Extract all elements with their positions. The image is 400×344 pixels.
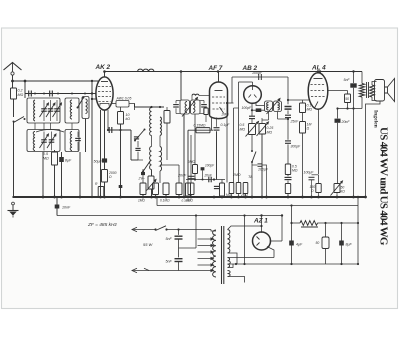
svg-text:2MΩ: 2MΩ — [221, 113, 230, 117]
svg-text:MΩ: MΩ — [292, 169, 298, 173]
resistor R4 — [98, 187, 104, 197]
terminal mains L — [132, 227, 137, 231]
wire AZ1 cathode out — [270, 240, 282, 242]
wire C12 down — [216, 131, 218, 179]
capacitor C6 50uF — [102, 158, 107, 162]
transformer T2 core — [221, 226, 223, 284]
svg-text:AW1 0.05: AW1 0.05 — [116, 97, 132, 101]
wire tuner top — [25, 93, 92, 95]
svg-text:10nF: 10nF — [62, 206, 71, 210]
potentiometer P1 — [151, 170, 153, 177]
transformer T1 secondary — [370, 85, 375, 97]
capacitor C13 100pF — [258, 74, 260, 80]
resistor R17 1M — [285, 184, 290, 194]
resistor R5 10k — [120, 107, 122, 112]
coil L3 — [33, 132, 35, 151]
node bus junctions — [42, 196, 45, 199]
resistor R12 0.15M — [188, 129, 213, 131]
resistor R9 — [176, 183, 182, 195]
wire screen feed — [328, 90, 348, 92]
svg-text:Ω: Ω — [311, 189, 314, 193]
resistor R6 — [140, 183, 146, 195]
wire AF7 right leg — [222, 117, 224, 122]
potentiometer P2 0.5M — [249, 124, 256, 135]
svg-text:Ω: Ω — [307, 127, 310, 131]
resistor R16 0.5M — [285, 164, 290, 175]
wire 100pF link — [232, 76, 288, 78]
capacitor C21 5nF — [350, 83, 356, 87]
wire HT top lead — [228, 226, 262, 230]
potentiometer P4 — [334, 184, 340, 193]
capacitor C17 25nF — [285, 114, 291, 116]
resistor R22 field coil — [292, 222, 301, 224]
variable arrow IF1 — [182, 98, 198, 117]
capacitor C5 10nF — [56, 197, 58, 216]
wire mains bottom — [132, 270, 211, 272]
svg-text:MΩ: MΩ — [267, 131, 273, 135]
wire IF2 right bottom — [277, 112, 279, 120]
wire R3 to bus — [104, 182, 106, 197]
wire antenna to AK2 grid — [13, 80, 99, 82]
transformer T2 taps — [198, 238, 212, 240]
svg-text:0.1MΩ: 0.1MΩ — [160, 198, 170, 202]
wire IF2 left bottom — [268, 112, 270, 121]
transformer T2 heater — [228, 258, 231, 268]
coil L2b — [86, 99, 88, 114]
capacitor C18 300pF — [285, 140, 291, 142]
wire diode loads — [226, 103, 228, 183]
potentiometer P3 0.25M — [261, 118, 263, 124]
svg-text:20nF: 20nF — [204, 174, 213, 178]
switch S5 TA — [251, 135, 253, 152]
wire below R1 — [13, 99, 15, 117]
wire tuner to AK2 g3 — [92, 93, 97, 95]
svg-text:300pF: 300pF — [291, 145, 302, 149]
wire antenna lead — [12, 75, 14, 88]
resistor R15 — [243, 183, 248, 194]
IF1 box left — [180, 100, 190, 114]
capacitor C12c series — [208, 177, 210, 183]
svg-text:MΩ: MΩ — [18, 93, 24, 97]
svg-text:8μF: 8μF — [65, 159, 72, 163]
variable capacitor CV2b — [56, 100, 58, 121]
choke L5 — [138, 69, 155, 71]
svg-text:5nF: 5nF — [166, 260, 173, 264]
svg-text:50μF: 50μF — [94, 160, 103, 164]
bus heater return — [228, 263, 359, 265]
coil L7 lower — [160, 147, 162, 172]
coil L6 lower — [150, 147, 152, 170]
transformer T2 primary — [213, 230, 216, 277]
coil L8 — [185, 102, 187, 113]
switch S3 — [135, 130, 145, 141]
svg-text:20nF: 20nF — [177, 174, 187, 178]
transformer T1 core — [366, 82, 368, 98]
node antenna junction — [11, 80, 14, 83]
capacitor C11 — [203, 101, 205, 104]
capacitor C16b coupling — [285, 106, 292, 108]
coil box A2 — [65, 98, 79, 123]
svg-text:5nF: 5nF — [166, 237, 173, 241]
tap arrow mains bottom — [211, 269, 215, 272]
coil L2 — [70, 100, 72, 119]
capacitor C8c — [134, 136, 139, 138]
svg-text:0.3MΩ: 0.3MΩ — [182, 199, 192, 203]
wire AK2 cathode down — [100, 110, 102, 197]
resistor R14 — [236, 183, 241, 194]
svg-text:100pF: 100pF — [205, 164, 215, 168]
capacitor C4 8uF — [61, 152, 63, 197]
wire column b — [79, 152, 81, 197]
svg-text:Ω: Ω — [109, 175, 112, 179]
capacitor C24 5nF — [178, 248, 180, 257]
coil L11 — [278, 103, 280, 111]
svg-text:100pF: 100pF — [258, 168, 269, 172]
switch S2 band — [78, 98, 84, 108]
coil L10 — [267, 103, 269, 111]
wire cathode row — [186, 179, 225, 181]
transformer T2 aux winding — [228, 271, 231, 277]
svg-text:8μF: 8μF — [346, 243, 353, 247]
svg-text:2MΩ: 2MΩ — [232, 173, 241, 177]
svg-text:ZF = 485 kHz: ZF = 485 kHz — [87, 222, 117, 228]
wire AF7 cathode — [211, 118, 213, 131]
resistor R osc — [166, 107, 168, 111]
coil box A1 — [27, 98, 60, 123]
variable capacitor CV3 — [43, 132, 45, 151]
node tuner top junctions — [34, 93, 36, 95]
wire osc bottom — [152, 169, 161, 171]
wire A3 down — [85, 119, 87, 153]
electrolytic can — [325, 223, 327, 237]
wire curved link — [36, 130, 64, 133]
wire AF7 grid top — [218, 72, 220, 83]
wire tuner left — [24, 81, 26, 98]
antenna — [4, 63, 22, 71]
svg-text:0.5: 0.5 — [43, 152, 48, 156]
wire heater drop — [244, 216, 246, 265]
capacitor C23 5nF — [178, 230, 180, 235]
wire OT gnd drop — [353, 109, 355, 198]
svg-text:0.1μF: 0.1μF — [221, 123, 231, 127]
svg-text:kΩ: kΩ — [126, 117, 131, 121]
svg-text:kΩ: kΩ — [341, 190, 346, 194]
resistor R1 0.2M — [11, 88, 17, 99]
wire rail drop IF1 — [180, 72, 182, 101]
resistor R11 2M — [194, 114, 196, 165]
switch S1 — [14, 117, 25, 123]
variable arrow IF2 — [267, 99, 281, 115]
wire AL4 plate top — [317, 72, 319, 74]
wire P1 to bus — [151, 189, 153, 197]
wire line2 — [156, 197, 158, 206]
wire column osc2 — [159, 171, 161, 183]
wire coil links — [151, 136, 153, 147]
wire R5 to bus — [120, 124, 122, 197]
capacitor C16 100pF — [252, 164, 258, 166]
svg-text:MΩ: MΩ — [43, 157, 49, 161]
resistor R21 50 — [347, 91, 349, 95]
capacitor C14b — [249, 115, 255, 117]
wire line3 — [57, 215, 282, 217]
coil L1 — [34, 100, 35, 121]
wire column a — [42, 152, 44, 197]
capacitor C14 100pF — [252, 109, 265, 111]
wire R1 to ground bus — [13, 121, 15, 197]
wire filter col right — [357, 206, 359, 265]
svg-text:20nF: 20nF — [341, 120, 351, 124]
wire primary top lead — [211, 230, 216, 232]
coil L9 — [193, 102, 195, 113]
wire mains top — [132, 229, 155, 231]
transformer T1 primary — [359, 84, 364, 98]
wire column c — [91, 81, 93, 197]
ground — [12, 202, 15, 205]
wire links rows — [34, 123, 36, 130]
coil L9b grid — [192, 94, 199, 95]
resistor R18 0.1M — [300, 103, 306, 113]
capacitor C1 — [28, 91, 30, 97]
svg-text:4μF: 4μF — [296, 243, 303, 247]
svg-text:AL 4: AL 4 — [311, 65, 326, 72]
wire speaker return — [366, 101, 381, 197]
svg-text:AF 7: AF 7 — [208, 65, 223, 72]
wire bus to line2 link — [357, 197, 359, 206]
resistor R3 — [102, 170, 108, 183]
capacitor C12 — [216, 118, 218, 127]
resistor R2 0.5M — [54, 150, 56, 152]
coil box B1 — [27, 130, 60, 152]
rail B+ top — [105, 71, 363, 73]
svg-text:25nF: 25nF — [290, 120, 300, 124]
ground bus — [13, 196, 366, 198]
switch S4 — [143, 161, 151, 172]
svg-text:US 404 WV und US 404 WG: US 404 WV und US 404 WG — [378, 127, 390, 246]
wire R2 to bus — [54, 165, 56, 197]
capacitor C19 5nF — [285, 176, 292, 178]
variable capacitor CV2 — [50, 100, 52, 121]
wire AB2 diode left — [251, 103, 253, 116]
svg-text:2V~: 2V~ — [138, 177, 146, 181]
wire left of R12 — [187, 130, 189, 179]
svg-text:0.25: 0.25 — [267, 126, 274, 130]
wire row links — [131, 159, 143, 161]
svg-text:100pF: 100pF — [242, 106, 253, 110]
switch S6 — [156, 226, 167, 231]
wire AZ1 anode drop — [261, 216, 263, 233]
wire HT bottom tap — [228, 253, 238, 264]
capacitor C8b 1nF — [141, 172, 145, 175]
resistor R20 150 — [318, 175, 320, 184]
node rail junctions — [180, 70, 183, 73]
svg-text:AB 2: AB 2 — [242, 65, 258, 72]
wire RC ladder top — [288, 99, 310, 101]
wire aux lead — [228, 277, 245, 283]
wire filter col1 — [291, 206, 293, 265]
IF1 box right — [191, 100, 201, 114]
wire OT top drop — [353, 72, 355, 84]
coil L4 — [70, 132, 72, 151]
wire heater top lead — [228, 257, 275, 259]
svg-text:MΩ: MΩ — [240, 128, 246, 132]
capacitor C20 100uF — [312, 174, 319, 176]
wire heater bottom lead — [228, 264, 234, 268]
resistor R11 stopper — [204, 108, 208, 115]
svg-text:AZ 1: AZ 1 — [253, 218, 268, 225]
svg-text:1MΩ: 1MΩ — [138, 198, 145, 202]
wire AK2 left lead — [92, 98, 96, 100]
box AW1 — [111, 103, 116, 105]
wire OT right drop — [361, 72, 363, 84]
wire R19 to bus — [302, 133, 304, 197]
wire AF7 anode — [228, 102, 234, 104]
svg-text:2MΩ: 2MΩ — [187, 160, 196, 164]
resistor R8 — [163, 183, 169, 195]
wire AK2 to osc — [108, 129, 131, 131]
capacitor C25 4uF — [289, 241, 294, 246]
resistor R10 — [188, 183, 194, 195]
capacitor C7 — [108, 127, 110, 133]
svg-text:0.5: 0.5 — [240, 123, 245, 127]
wire AB2 top — [239, 81, 253, 83]
capacitor C22 20nF — [337, 109, 339, 119]
wire line3 drop right — [281, 216, 283, 242]
wire AK2 plate to rail — [104, 72, 106, 78]
resistor R13 — [229, 183, 234, 194]
wire P3 to bus — [261, 134, 263, 197]
wire TA down — [251, 162, 253, 197]
capacitor C10 — [175, 101, 177, 104]
wire AW1 right — [129, 104, 135, 111]
capacitor C26 8uF — [341, 223, 343, 264]
svg-text:0.2: 0.2 — [18, 89, 23, 93]
svg-text:55 W: 55 W — [143, 242, 154, 247]
resistor R19 1M — [300, 122, 306, 134]
resistor R7 — [153, 183, 159, 195]
transformer T2 secondary HT — [228, 230, 230, 254]
coil L6 upper — [150, 108, 152, 136]
wire cap mid — [179, 247, 197, 249]
variable capacitor CV1 — [43, 100, 45, 121]
svg-text:AK 2: AK 2 — [95, 64, 111, 71]
wire AB2 diode right — [256, 103, 265, 106]
capacitor C8 — [137, 141, 139, 147]
capacitor C12d — [214, 185, 219, 187]
svg-text:MΩ: MΩ — [307, 108, 313, 112]
wire ladder col1 — [287, 77, 289, 104]
svg-text:50: 50 — [345, 97, 349, 101]
variable capacitor CV4 — [51, 132, 53, 151]
IF2 box left — [265, 101, 273, 112]
capacitor C2 — [49, 91, 51, 97]
wire osc top — [134, 104, 136, 108]
coil box A3 — [82, 97, 89, 119]
capacitor C12b 100pF — [201, 167, 205, 170]
capacitor C7b — [119, 185, 123, 188]
svg-text:50: 50 — [316, 241, 320, 245]
terminal mains N — [132, 268, 137, 272]
coil L7 upper — [160, 117, 161, 136]
svg-text:2MΩ: 2MΩ — [240, 193, 248, 197]
capacitor C3 — [77, 132, 79, 138]
wire osc drop — [130, 130, 132, 160]
capacitor C9 20nF — [188, 175, 195, 177]
coil box B2 — [65, 130, 79, 152]
resistor R12b 0.3M — [187, 180, 189, 184]
wire AL4 cathode — [318, 109, 320, 174]
wire ladder col2 — [302, 100, 304, 103]
svg-text:5nF: 5nF — [344, 78, 351, 82]
wire OT bottom — [338, 108, 363, 110]
svg-text:100μF: 100μF — [304, 171, 315, 175]
wire AZ1 filament down — [267, 247, 274, 258]
wire AK2 g down — [104, 110, 106, 159]
svg-text:Ingelen: Ingelen — [373, 110, 379, 129]
wire IF1 bottom drop — [183, 114, 185, 197]
speaker — [375, 80, 385, 102]
IF2 box right — [274, 101, 282, 112]
resistor R12c — [221, 180, 223, 184]
